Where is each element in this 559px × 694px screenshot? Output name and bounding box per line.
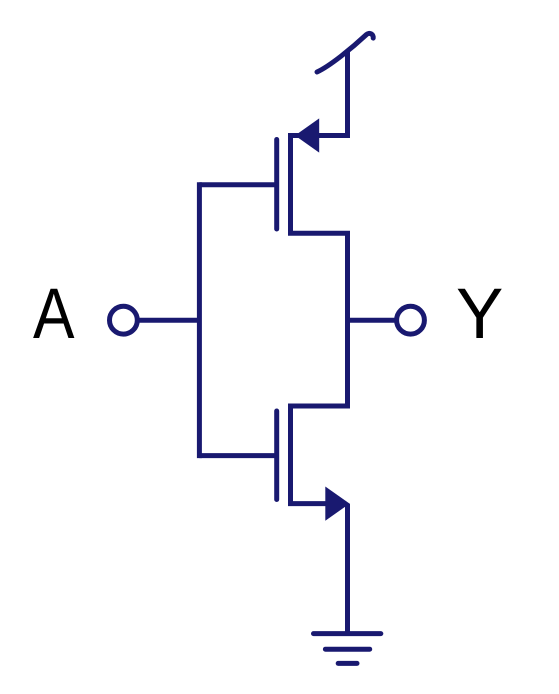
wire gate bus vertical [197,182,202,458]
Q1 source arrow (points into gate) [295,118,319,152]
wire VDD to PMOS source [345,50,350,136]
wire input A [139,318,200,323]
wire gate bottom (bus to nMOS gate) [199,453,276,458]
Q2 source arrow (points out to source) [325,487,349,521]
wire output Y [348,318,398,323]
transistor Q1 pMOS pull-up [277,118,350,233]
transistor Q2 nMOS pull-down [277,406,350,521]
wire gate top (bus to pMOS gate) [199,182,276,187]
Q1 gate bar [274,140,279,230]
svg-text:A: A [33,275,75,354]
Q2 channel with drain/source stubs [291,406,351,504]
Q2 gate bar [274,411,279,500]
terminal output circle [397,306,425,334]
power symbol VDD [317,33,373,72]
ground [314,634,381,664]
terminal input circle [110,306,138,334]
wire output bus (pMOS drain to nMOS drain) [345,233,350,406]
svg-text:Y: Y [456,275,503,354]
wire nMOS source to ground [345,504,350,634]
Q1 channel with source/drain stubs [291,136,351,234]
